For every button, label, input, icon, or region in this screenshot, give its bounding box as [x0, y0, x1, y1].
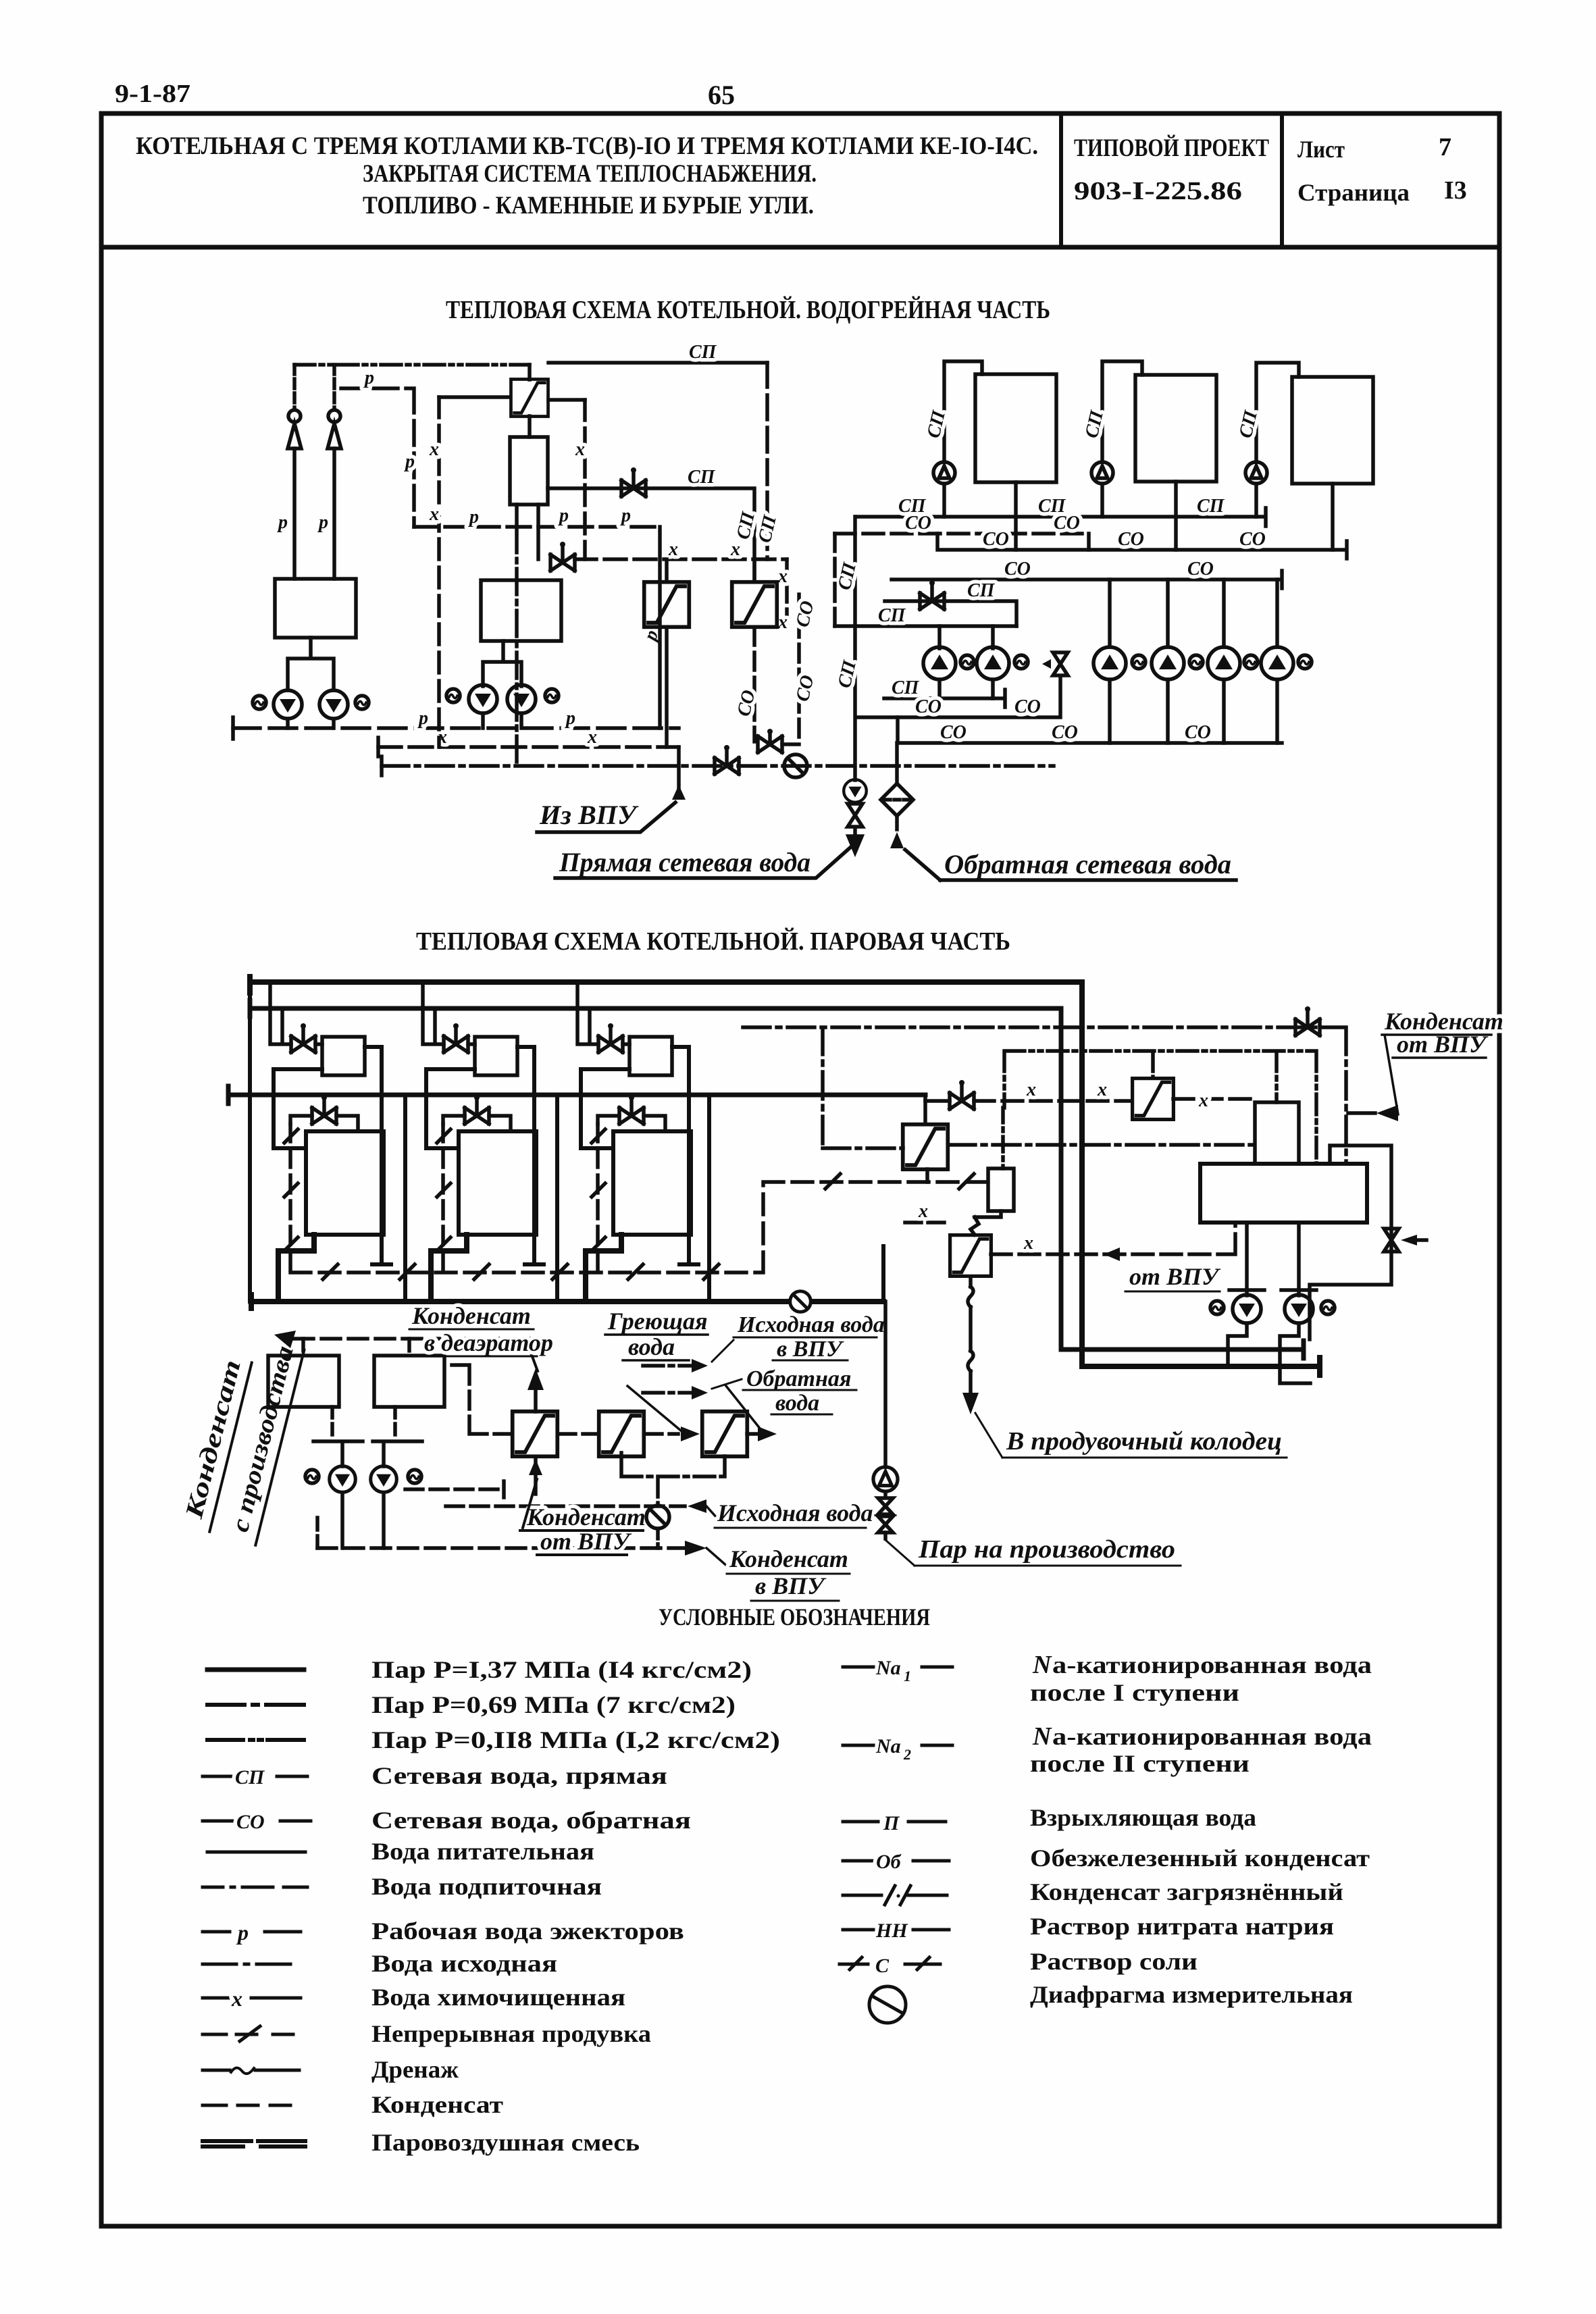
right column text — [1030, 1651, 1372, 2008]
svg-text:р: р — [236, 1920, 249, 1945]
svg-text:х: х — [1023, 1233, 1033, 1254]
cond to VPU dashed bus — [317, 1546, 699, 1550]
svg-text:СП: СП — [689, 342, 717, 363]
valve between CO risers — [758, 736, 782, 752]
section titles — [416, 296, 1050, 1630]
feed valve — [312, 1095, 336, 1124]
svg-text:65: 65 — [708, 80, 735, 110]
heating water label — [607, 1308, 708, 1360]
svg-text:СО: СО — [1187, 559, 1214, 580]
svg-text:КОТЕЛЬНАЯ С ТРЕМЯ КОТЛАМИ КВ-Т: КОТЕЛЬНАЯ С ТРЕМЯ КОТЛАМИ КВ-ТС(В)-IО И … — [136, 132, 1038, 160]
svg-text:СО: СО — [1014, 696, 1041, 717]
cond pump 1 — [330, 1466, 356, 1493]
iz VPU riser — [677, 747, 681, 789]
svg-text:СО: СО — [1054, 513, 1080, 534]
svg-text:х: х — [429, 504, 439, 525]
ejector water dashed line — [414, 525, 659, 529]
svg-text:ТОПЛИВО - КАМЕННЫЕ И БУРЫЕ УГЛ: ТОПЛИВО - КАМЕННЫЕ И БУРЫЕ УГЛИ. — [363, 192, 814, 220]
svg-text:Обратная сетевая вода: Обратная сетевая вода — [944, 849, 1231, 879]
cond tank 2 — [374, 1356, 444, 1407]
outlet elbow — [365, 1047, 391, 1264]
svg-text:в ВПУ: в ВПУ — [755, 1572, 827, 1599]
svg-text:СО: СО — [792, 599, 819, 629]
boiler1 inlet pipe — [944, 361, 982, 462]
ejector 1 — [288, 410, 301, 448]
svg-text:Взрыхляющая вода: Взрыхляющая вода — [1030, 1804, 1256, 1831]
chem water bus — [376, 738, 380, 756]
svg-text:Сетевая вода, прямая: Сетевая вода, прямая — [371, 1762, 667, 1789]
svg-text:р: р — [417, 708, 428, 729]
svg-text:Греющая: Греющая — [607, 1308, 708, 1335]
valve V2 + x line — [550, 542, 575, 571]
page header — [115, 80, 735, 110]
CP row6 — [884, 690, 1005, 707]
boiler3 inlet pipe — [1256, 363, 1299, 462]
svg-text:В продувочный колодец: В продувочный колодец — [1006, 1427, 1282, 1456]
collector line — [274, 1067, 322, 1071]
svg-text:х: х — [231, 1986, 242, 2011]
deaerator pump 1 — [1233, 1295, 1261, 1323]
deaerator head — [1255, 1102, 1299, 1164]
svg-text:СП: СП — [967, 580, 996, 601]
steam bus B2 0.69 — [250, 1000, 1304, 1358]
svg-text:УСЛОВНЫЕ ОБОЗНАЧЕНИЯ: УСЛОВНЫЕ ОБОЗНАЧЕНИЯ — [659, 1603, 930, 1630]
CP line from tall tank — [548, 488, 754, 582]
svg-text:Конденсат: Конденсат — [371, 2091, 503, 2118]
deaerator overflow right — [1310, 1146, 1391, 1339]
makeup water dash-dot line — [380, 756, 384, 775]
svg-text:х: х — [1198, 1090, 1208, 1111]
HX4 — [1133, 1079, 1174, 1120]
CO row7 — [856, 677, 1060, 717]
CO row3 — [937, 534, 1347, 559]
svg-text:СП: СП — [892, 677, 920, 698]
HX3 top riser — [925, 1095, 927, 1182]
svg-text:р: р — [277, 512, 288, 533]
heat exchanger HX1 — [511, 379, 548, 416]
svg-text:Конденсат: Конденсат — [411, 1302, 531, 1329]
svg-text:Страница: Страница — [1297, 179, 1410, 206]
network pump 1 — [1093, 647, 1126, 679]
x line with valve to HX4 — [974, 1099, 1130, 1103]
network pump 4 — [1261, 647, 1293, 679]
svg-text:Дренаж: Дренаж — [371, 2056, 459, 2083]
pump outlets to VPU bus — [342, 1493, 384, 1548]
svg-text:Об: Об — [876, 1851, 902, 1873]
outflow arrow — [848, 829, 862, 852]
boiler3 flow circle — [1245, 462, 1267, 484]
pump P3 — [469, 685, 497, 713]
x riser right of HXB — [785, 559, 789, 627]
boiler2 inlet pipe — [1102, 361, 1142, 462]
recirc valve line — [885, 601, 1016, 626]
cond ot VPU right label — [1384, 1008, 1503, 1058]
HX1 stub up — [527, 365, 532, 380]
pump P2 — [319, 690, 348, 719]
svg-text:Исходная вода: Исходная вода — [737, 1312, 885, 1337]
svg-text:С: С — [875, 1955, 890, 1977]
svg-text:Nа: Nа — [875, 1657, 901, 1679]
svg-text:СО: СО — [1239, 529, 1266, 550]
svg-text:р: р — [363, 367, 374, 388]
dash-dot from HX3 to deaerator — [948, 1143, 1255, 1147]
steam-air mix top bus — [294, 363, 530, 367]
right column symbols — [843, 1666, 952, 1669]
steam-air bus dash-dd — [1004, 1051, 1316, 1164]
HX4 to deaerator — [1173, 1097, 1255, 1101]
svg-text:Вода исходная: Вода исходная — [371, 1950, 557, 1977]
small box SB — [988, 1168, 1014, 1211]
svg-text:а-катионированная вода: а-катионированная вода — [1052, 1651, 1372, 1678]
valve on makeup line — [715, 745, 739, 774]
LP heat exchanger E1 — [513, 1412, 558, 1457]
svg-text:1: 1 — [904, 1668, 911, 1685]
svg-text:после I ступени: после I ступени — [1030, 1679, 1239, 1706]
svg-text:СО: СО — [915, 696, 942, 717]
unit separator spines — [405, 1095, 709, 1302]
iz VPU label — [539, 800, 639, 830]
CP bus row1 — [856, 508, 1266, 526]
svg-text:Обезжелезенный конденсат: Обезжелезенный конденсат — [1030, 1845, 1370, 1872]
superheater box — [322, 1037, 365, 1075]
boiler2 flow circle — [1091, 462, 1113, 484]
svg-text:вода: вода — [775, 1391, 819, 1416]
boiler 2 — [1135, 375, 1216, 482]
svg-text:х: х — [429, 439, 439, 460]
box2 pumps — [483, 641, 521, 686]
steam bus B1 1.37MPa — [250, 977, 1320, 1375]
x short left of HX5 — [905, 1220, 950, 1225]
svg-text:СО: СО — [905, 513, 931, 534]
svg-text:от ВПУ: от ВПУ — [1129, 1263, 1221, 1290]
motor tildes — [253, 696, 266, 709]
deaerator pump 2 — [1285, 1295, 1313, 1323]
box2 vacuum tank — [481, 580, 561, 641]
svg-text:Раствор нитрата натрия: Раствор нитрата натрия — [1030, 1913, 1334, 1940]
svg-text:в ВПУ: в ВПУ — [777, 1337, 844, 1362]
svg-text:Пар Р=I,37 МПа (I4 кгс/см2): Пар Р=I,37 МПа (I4 кгс/см2) — [371, 1656, 752, 1683]
CP row5 — [835, 624, 1016, 628]
LP heat exchanger E3 — [702, 1412, 748, 1457]
svg-text:х: х — [777, 566, 788, 587]
left spine — [248, 982, 252, 1302]
svg-text:Паровоздушная смесь: Паровоздушная смесь — [371, 2129, 640, 2156]
line HX1 left down — [439, 395, 510, 399]
drops from buses — [270, 982, 291, 1044]
riser x1201 — [733, 509, 781, 545]
drops to ejectors — [292, 365, 297, 409]
ejector 2 — [328, 410, 341, 448]
CO row8 — [898, 717, 1282, 743]
cond pump 2 — [371, 1466, 397, 1493]
cond tank 1 — [268, 1356, 339, 1407]
svg-text:2: 2 — [903, 1746, 911, 1763]
svg-text:Из ВПУ: Из ВПУ — [539, 800, 639, 830]
tall tank bottom stubs — [517, 505, 538, 559]
svg-text:НН: НН — [875, 1920, 908, 1942]
svg-text:Сетевая вода, обратная: Сетевая вода, обратная — [371, 1807, 691, 1834]
LP heat exchanger E2 — [599, 1412, 644, 1457]
svg-text:СО: СО — [1004, 559, 1031, 580]
svg-text:Вода химочищенная: Вода химочищенная — [371, 1984, 625, 2011]
svg-text:П: П — [883, 1812, 900, 1834]
from VPU dashed line — [991, 1223, 1235, 1254]
svg-text:I3: I3 — [1444, 176, 1467, 205]
boiler outlet drops — [1016, 482, 1333, 550]
HX3 — [903, 1125, 948, 1170]
svg-text:ТЕПЛОВАЯ СХЕМА КОТЕЛЬНОЙ. ПАРО: ТЕПЛОВАЯ СХЕМА КОТЕЛЬНОЙ. ПАРОВАЯ ЧАСТЬ — [416, 927, 1010, 956]
obratnaya label — [944, 849, 1231, 879]
box1 vacuum tank — [275, 579, 356, 638]
svg-text:х: х — [777, 612, 788, 633]
svg-text:х: х — [668, 539, 678, 560]
CO row4 — [892, 571, 1282, 588]
p line to ejectors — [341, 388, 414, 527]
boiler 3 — [1292, 377, 1373, 484]
svg-text:р: р — [565, 708, 575, 729]
cond ot VPU arrow into E1 — [534, 1457, 538, 1494]
condensate inlet dashed — [294, 1337, 536, 1341]
svg-text:СО: СО — [940, 722, 967, 743]
raw water to VPU labels — [737, 1312, 885, 1416]
svg-text:Исходная вода: Исходная вода — [717, 1499, 873, 1526]
riser x1136 — [765, 363, 769, 559]
svg-text:р: р — [620, 505, 631, 526]
svg-text:Вода питательная: Вода питательная — [371, 1838, 594, 1865]
svg-text:Конденсат загрязнённый: Конденсат загрязнённый — [1030, 1878, 1343, 1905]
svg-text:х: х — [730, 539, 740, 560]
boiler1 flow circle — [933, 462, 955, 484]
svg-text:Пар на производство: Пар на производство — [918, 1535, 1175, 1564]
svg-text:ТЕПЛОВАЯ СХЕМА КОТЕЛЬНОЙ. ВОДО: ТЕПЛОВАЯ СХЕМА КОТЕЛЬНОЙ. ВОДОГРЕЙНАЯ ЧА… — [446, 296, 1050, 324]
blowdown bus — [290, 1182, 988, 1272]
svg-text:СО: СО — [236, 1811, 265, 1833]
p return bus — [233, 717, 334, 739]
SB to HX5 — [971, 1211, 1001, 1235]
deaerator tank — [1200, 1164, 1367, 1223]
frame border — [101, 113, 1499, 2226]
condensate from production label (rotated) — [180, 1343, 299, 1535]
blowdown well drain — [968, 1277, 973, 1393]
svg-text:N: N — [1032, 1722, 1052, 1751]
CO dashed riser x1183 — [797, 594, 801, 742]
CO row2 dashed — [835, 534, 1089, 550]
filter diamond — [881, 783, 913, 816]
HX-B network heater — [732, 582, 777, 627]
svg-text:Прямая сетевая вода: Прямая сетевая вода — [559, 847, 810, 877]
tank2 to pump — [393, 1407, 397, 1437]
left column text — [371, 1656, 780, 2156]
steam to production column — [881, 1246, 885, 1302]
svg-text:9-1-87: 9-1-87 — [115, 80, 190, 108]
svg-text:Вода подпиточная: Вода подпиточная — [371, 1873, 602, 1900]
svg-text:N: N — [1032, 1651, 1052, 1679]
svg-text:а-катионированная вода: а-катионированная вода — [1052, 1723, 1372, 1750]
HX-A network heater — [644, 582, 690, 627]
svg-text:Непрерывная продувка: Непрерывная продувка — [371, 2020, 651, 2047]
svg-text:Рабочая вода эжекторов: Рабочая вода эжекторов — [371, 1918, 684, 1945]
svg-text:Лист: Лист — [1297, 136, 1345, 163]
title block text — [136, 132, 1467, 220]
network pump 3 — [1208, 647, 1240, 679]
svg-text:Пар Р=0,II8 МПа (I,2 кгс/см2): Пар Р=0,II8 МПа (I,2 кгс/см2) — [371, 1726, 780, 1753]
svg-text:Диафрагма измерительная: Диафрагма измерительная — [1030, 1981, 1353, 2008]
svg-text:Пар Р=0,69 МПа (7 кгс/см2): Пар Р=0,69 МПа (7 кгс/см2) — [371, 1691, 736, 1718]
svg-text:после II ступени: после II ступени — [1030, 1750, 1250, 1777]
svg-text:р: р — [317, 512, 328, 533]
network pumps group — [1110, 580, 1277, 647]
svg-text:Конденсат: Конденсат — [526, 1503, 646, 1531]
svg-text:х: х — [575, 439, 585, 460]
cond v VPU label — [729, 1545, 848, 1599]
blowdown dashed — [288, 1124, 292, 1272]
0.69 steam bus dash-dot — [743, 1027, 1375, 1164]
CP main riser — [853, 517, 857, 780]
svg-text:х: х — [587, 727, 597, 748]
HXA risers — [660, 527, 667, 747]
HX5 — [950, 1235, 992, 1277]
svg-text:х: х — [1097, 1079, 1107, 1100]
svg-text:Раствор соли: Раствор соли — [1030, 1948, 1198, 1975]
svg-text:Конденсат: Конденсат — [729, 1545, 848, 1572]
boiler body — [306, 1131, 384, 1235]
network pump 2 — [1152, 647, 1184, 679]
svg-text:р: р — [558, 505, 569, 526]
line HX1 to right — [548, 361, 767, 365]
svg-text:х: х — [918, 1201, 928, 1222]
steam out L — [278, 1235, 314, 1302]
svg-text:СП: СП — [1197, 496, 1225, 517]
svg-text:ЗАКРЫТАЯ СИСТЕМА ТЕПЛОСНАБЖЕНИ: ЗАКРЫТАЯ СИСТЕМА ТЕПЛОСНАБЖЕНИЯ. — [363, 160, 817, 188]
svg-text:р: р — [404, 451, 415, 472]
svg-text:Обратная: Обратная — [746, 1366, 851, 1391]
svg-text:СП: СП — [878, 605, 906, 626]
svg-text:р: р — [468, 507, 479, 528]
riser pump — [844, 779, 867, 802]
deaerator condensate arrow + label — [534, 1389, 538, 1412]
recirc pumps — [939, 626, 993, 648]
steam valve — [291, 1023, 315, 1052]
svg-text:Nа: Nа — [875, 1735, 901, 1757]
title block lines — [101, 245, 1499, 250]
HX1 right dashed riser — [548, 398, 585, 402]
svg-text:в деаэратор: в деаэратор — [424, 1329, 553, 1356]
diaphragm under E3 — [621, 1453, 725, 1505]
boiler 1 — [975, 374, 1056, 482]
iskhodnaya voda label mid — [688, 1499, 706, 1513]
box1 to pumps — [288, 638, 334, 690]
pryamaya label — [559, 847, 810, 877]
svg-text:СО: СО — [1185, 722, 1211, 743]
diaphragm on makeup line — [784, 754, 807, 777]
svg-text:вода: вода — [628, 1333, 675, 1360]
svg-text:СО: СО — [1052, 722, 1078, 743]
E row connections — [405, 1365, 685, 1506]
pump P4 — [507, 685, 536, 713]
ejector cooler tall tank — [510, 437, 548, 505]
bottom steam header — [251, 1295, 883, 1308]
pump P1 — [274, 690, 302, 719]
HXB risers — [752, 559, 756, 582]
svg-text:ТИПОВОЙ ПРОЕКТ: ТИПОВОЙ ПРОЕКТ — [1074, 134, 1269, 162]
riser hourglass valve — [848, 804, 863, 827]
deaerator pumps — [1229, 1223, 1264, 1295]
ejector risers — [292, 448, 297, 579]
svg-text:СП: СП — [688, 467, 716, 488]
valve V1 — [621, 467, 646, 496]
svg-text:х: х — [1026, 1079, 1036, 1100]
secondary steam bus — [228, 1086, 925, 1104]
svg-text:СП: СП — [235, 1766, 265, 1789]
svg-text:СО: СО — [983, 529, 1009, 550]
bypass hourglass valve — [1053, 652, 1068, 675]
svg-text:903-I-225.86: 903-I-225.86 — [1074, 177, 1242, 205]
svg-text:СО: СО — [1118, 529, 1144, 550]
left column symbols — [207, 1668, 304, 1672]
svg-text:СО: СО — [792, 673, 819, 704]
boiler unit 1 — [270, 982, 391, 1302]
tank1 to pump — [330, 1407, 334, 1437]
svg-text:7: 7 — [1439, 133, 1451, 161]
